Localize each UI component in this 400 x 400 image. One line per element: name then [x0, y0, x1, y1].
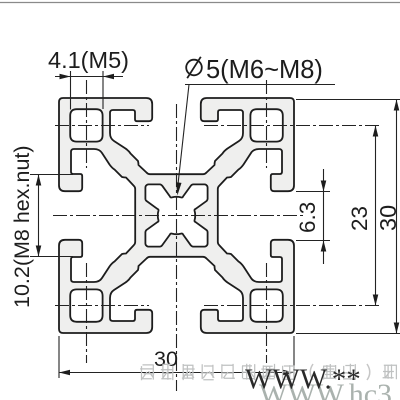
- extrusion profile body 30x30: [59, 98, 294, 333]
- svg-text:4.1(M5): 4.1(M5): [48, 47, 129, 73]
- hole centerlines at (86.5,125.5): [55, 125, 149, 127]
- dim 10.2 dimension line + arrows: [38, 175, 40, 257]
- page top rule: [0, 2, 400, 4]
- svg-text:WWW.**: WWW.**: [245, 364, 361, 396]
- centerline horizontal main: [53, 215, 303, 217]
- hole centerlines at (266.5,125.5): [204, 125, 381, 127]
- leader line for dia5: [185, 84, 335, 86]
- svg-text:5(M6~M8): 5(M6~M8): [206, 56, 323, 84]
- dim 10.2 extension lines: [30, 174, 73, 176]
- svg-text:23: 23: [347, 206, 372, 231]
- dim text dia5(M6~M8): [186, 60, 202, 76]
- centerline vertical main: [176, 104, 178, 391]
- hole centerlines at (86.5,305.5): [55, 305, 149, 307]
- dim 4.1(M5) dimension line + outside arrows: [55, 76, 123, 78]
- dim 4.1(M5) extension lines: [70, 71, 72, 110]
- dim 30 bottom dimension line + arrows: [59, 372, 294, 374]
- dim 30 right dimension line + arrows: [396, 100, 398, 334]
- dim 6.3 extension lines: [296, 191, 330, 193]
- dim 6.3 dimension line + outside arrows: [323, 169, 325, 264]
- svg-text:30: 30: [375, 205, 400, 231]
- svg-text:6.3: 6.3: [295, 202, 320, 233]
- dim 30 bottom extension lines: [58, 336, 60, 378]
- svg-text:30: 30: [154, 347, 178, 371]
- hole centerlines at (266.5,305.5): [204, 305, 381, 307]
- dim 30 right extension lines: [296, 99, 400, 101]
- svg-text:10.2(M8 hex.nut): 10.2(M8 hex.nut): [10, 145, 34, 308]
- watermark chinese pseudo-glyphs: [140, 364, 154, 380]
- dim 23 dimension line + arrows: [375, 125, 377, 305]
